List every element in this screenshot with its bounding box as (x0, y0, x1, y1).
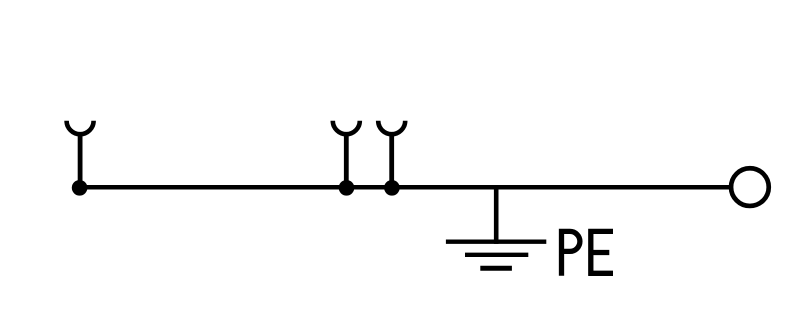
terminal circle (right end) (731, 168, 769, 206)
net label PE (562, 229, 614, 276)
wire: stem T2 (344, 133, 349, 189)
junction node 1 (72, 180, 88, 196)
wire: ground stem (494, 187, 499, 244)
wire: stem T1 (78, 133, 83, 189)
wire: stem T3 (389, 133, 394, 189)
terminal contact T2 (middle clamp) (333, 121, 360, 135)
terminal contact T3 (middle clamp) (378, 121, 405, 135)
ground (earth) symbol (446, 242, 546, 269)
terminal contact T1 (left clamp) (67, 121, 94, 135)
junction node 2 (339, 180, 355, 196)
wire: PE bus (79, 185, 731, 190)
junction node 3 (384, 180, 400, 196)
